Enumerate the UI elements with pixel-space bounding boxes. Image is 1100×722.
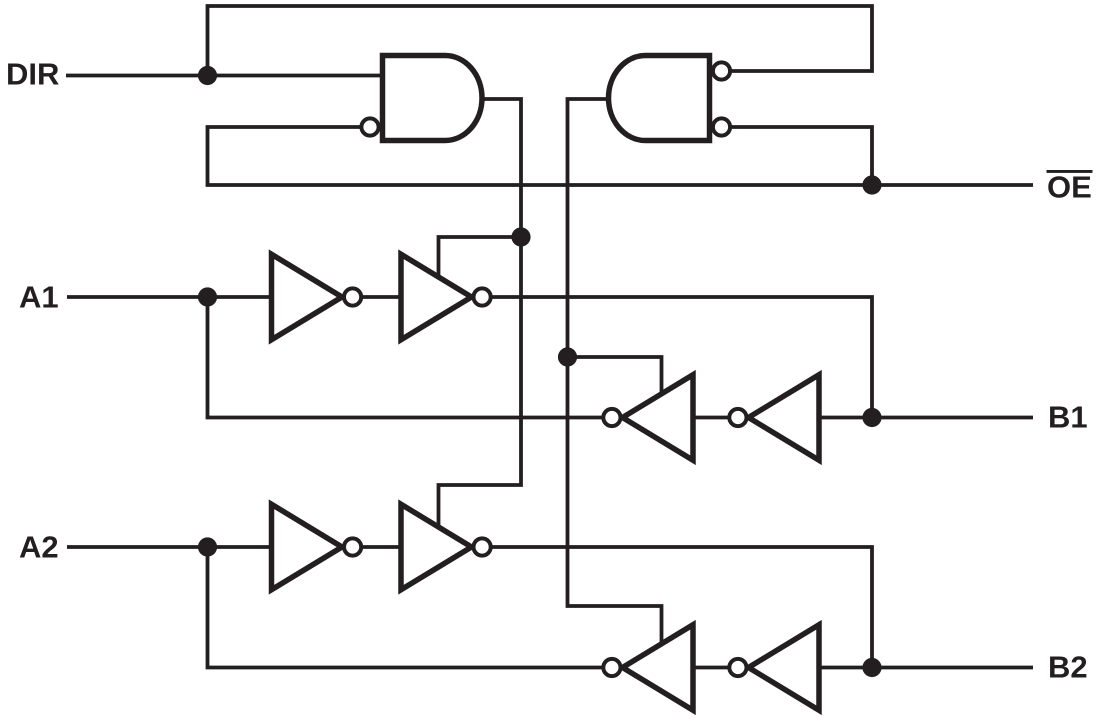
wire: U1 output to U2 input [342,295,403,299]
wire: A1 input to buffer U1 [67,295,273,299]
bubble: U7 output [603,659,620,676]
svg-text:DIR: DIR [6,57,59,92]
bubble: U3 output [603,409,620,426]
wire: branch to B1 receiver enable [568,357,662,398]
bubble: U8 output [729,659,746,676]
wire: A2 input to buffer U5 [67,545,273,549]
wire: U5 output to U6 input [342,545,403,549]
svg-text:B2: B2 [1048,650,1088,685]
buffer U2: A1 second inverter triangle (driver to B1) [401,254,472,340]
svg-text:A2: A2 [19,530,59,565]
buffer U8: B2 second receiver triangle (left-facing) [749,625,820,711]
wire: G1 output down to A2 driver enable [439,99,522,527]
bubble: U1 output [344,288,361,305]
wire: top rail from DIR junction to NAND upper input [208,6,873,76]
junction: OE node [862,175,881,194]
bubble: U2 output [474,288,491,305]
junction: DIR node [198,66,217,85]
buffer U4: B1 second receiver triangle (left-facing) [749,375,820,461]
wire: U2 output over to B1 line [472,297,873,418]
junction: B1 node [862,408,881,427]
wire: branch to A1 driver enable [439,237,522,279]
svg-text:B1: B1 [1048,400,1088,435]
junction: B1 enable branch [558,347,577,366]
wire: B1 line from driver to pin [819,416,1033,420]
buffer U5: A2 first inverter triangle [272,504,343,590]
bubble: U4 output [729,409,746,426]
wire: NAND G2 lower input bubble to OE line [731,127,872,185]
wire: A2 junction down to B2 receiver output line [208,547,605,668]
wire: G2 output down to B2 receiver enable [568,99,662,648]
junction: B2 node [862,658,881,677]
gate G2: mirrored AND gate with inverted inputs [609,56,710,141]
wire: B2 line from driver to pin [819,666,1033,670]
bubble: U6 output [474,538,491,555]
wire: B1 receiver chain middle [693,416,750,420]
junction: A2 node [198,537,217,556]
buffer U6: A2 second inverter triangle (driver to B2) [401,504,472,590]
buffer U7: B2 first receiver triangle (left-facing) [623,625,694,711]
overbar of OE [1047,170,1093,173]
gate G1: AND gate with inverted lower input (direction control) [383,56,483,141]
svg-text:A1: A1 [19,280,59,315]
bubble: G1 lower input inversion [361,118,378,135]
wire: A1 junction down to B1 receiver output line [208,297,605,418]
bubble: G2 lower input inversion [713,118,730,135]
junction: A1 node [198,287,217,306]
wire: U6 output over to B2 line [472,547,873,668]
buffer U1: A1 first inverter triangle [272,254,343,340]
buffer U3: B1 first receiver triangle (left-facing) [623,375,694,461]
wire: B2 receiver chain middle [693,666,750,670]
bubble: U5 output [344,538,361,555]
wire: DIR input to AND gate G1 upper input [66,74,383,78]
bubble: G2 upper input inversion [713,62,730,79]
wire: OE net left branch up to G1 lower input bubble, and OE horizontal line [208,127,1034,185]
svg-text:OE: OE [1047,170,1092,205]
junction: A1 enable branch [511,227,530,246]
